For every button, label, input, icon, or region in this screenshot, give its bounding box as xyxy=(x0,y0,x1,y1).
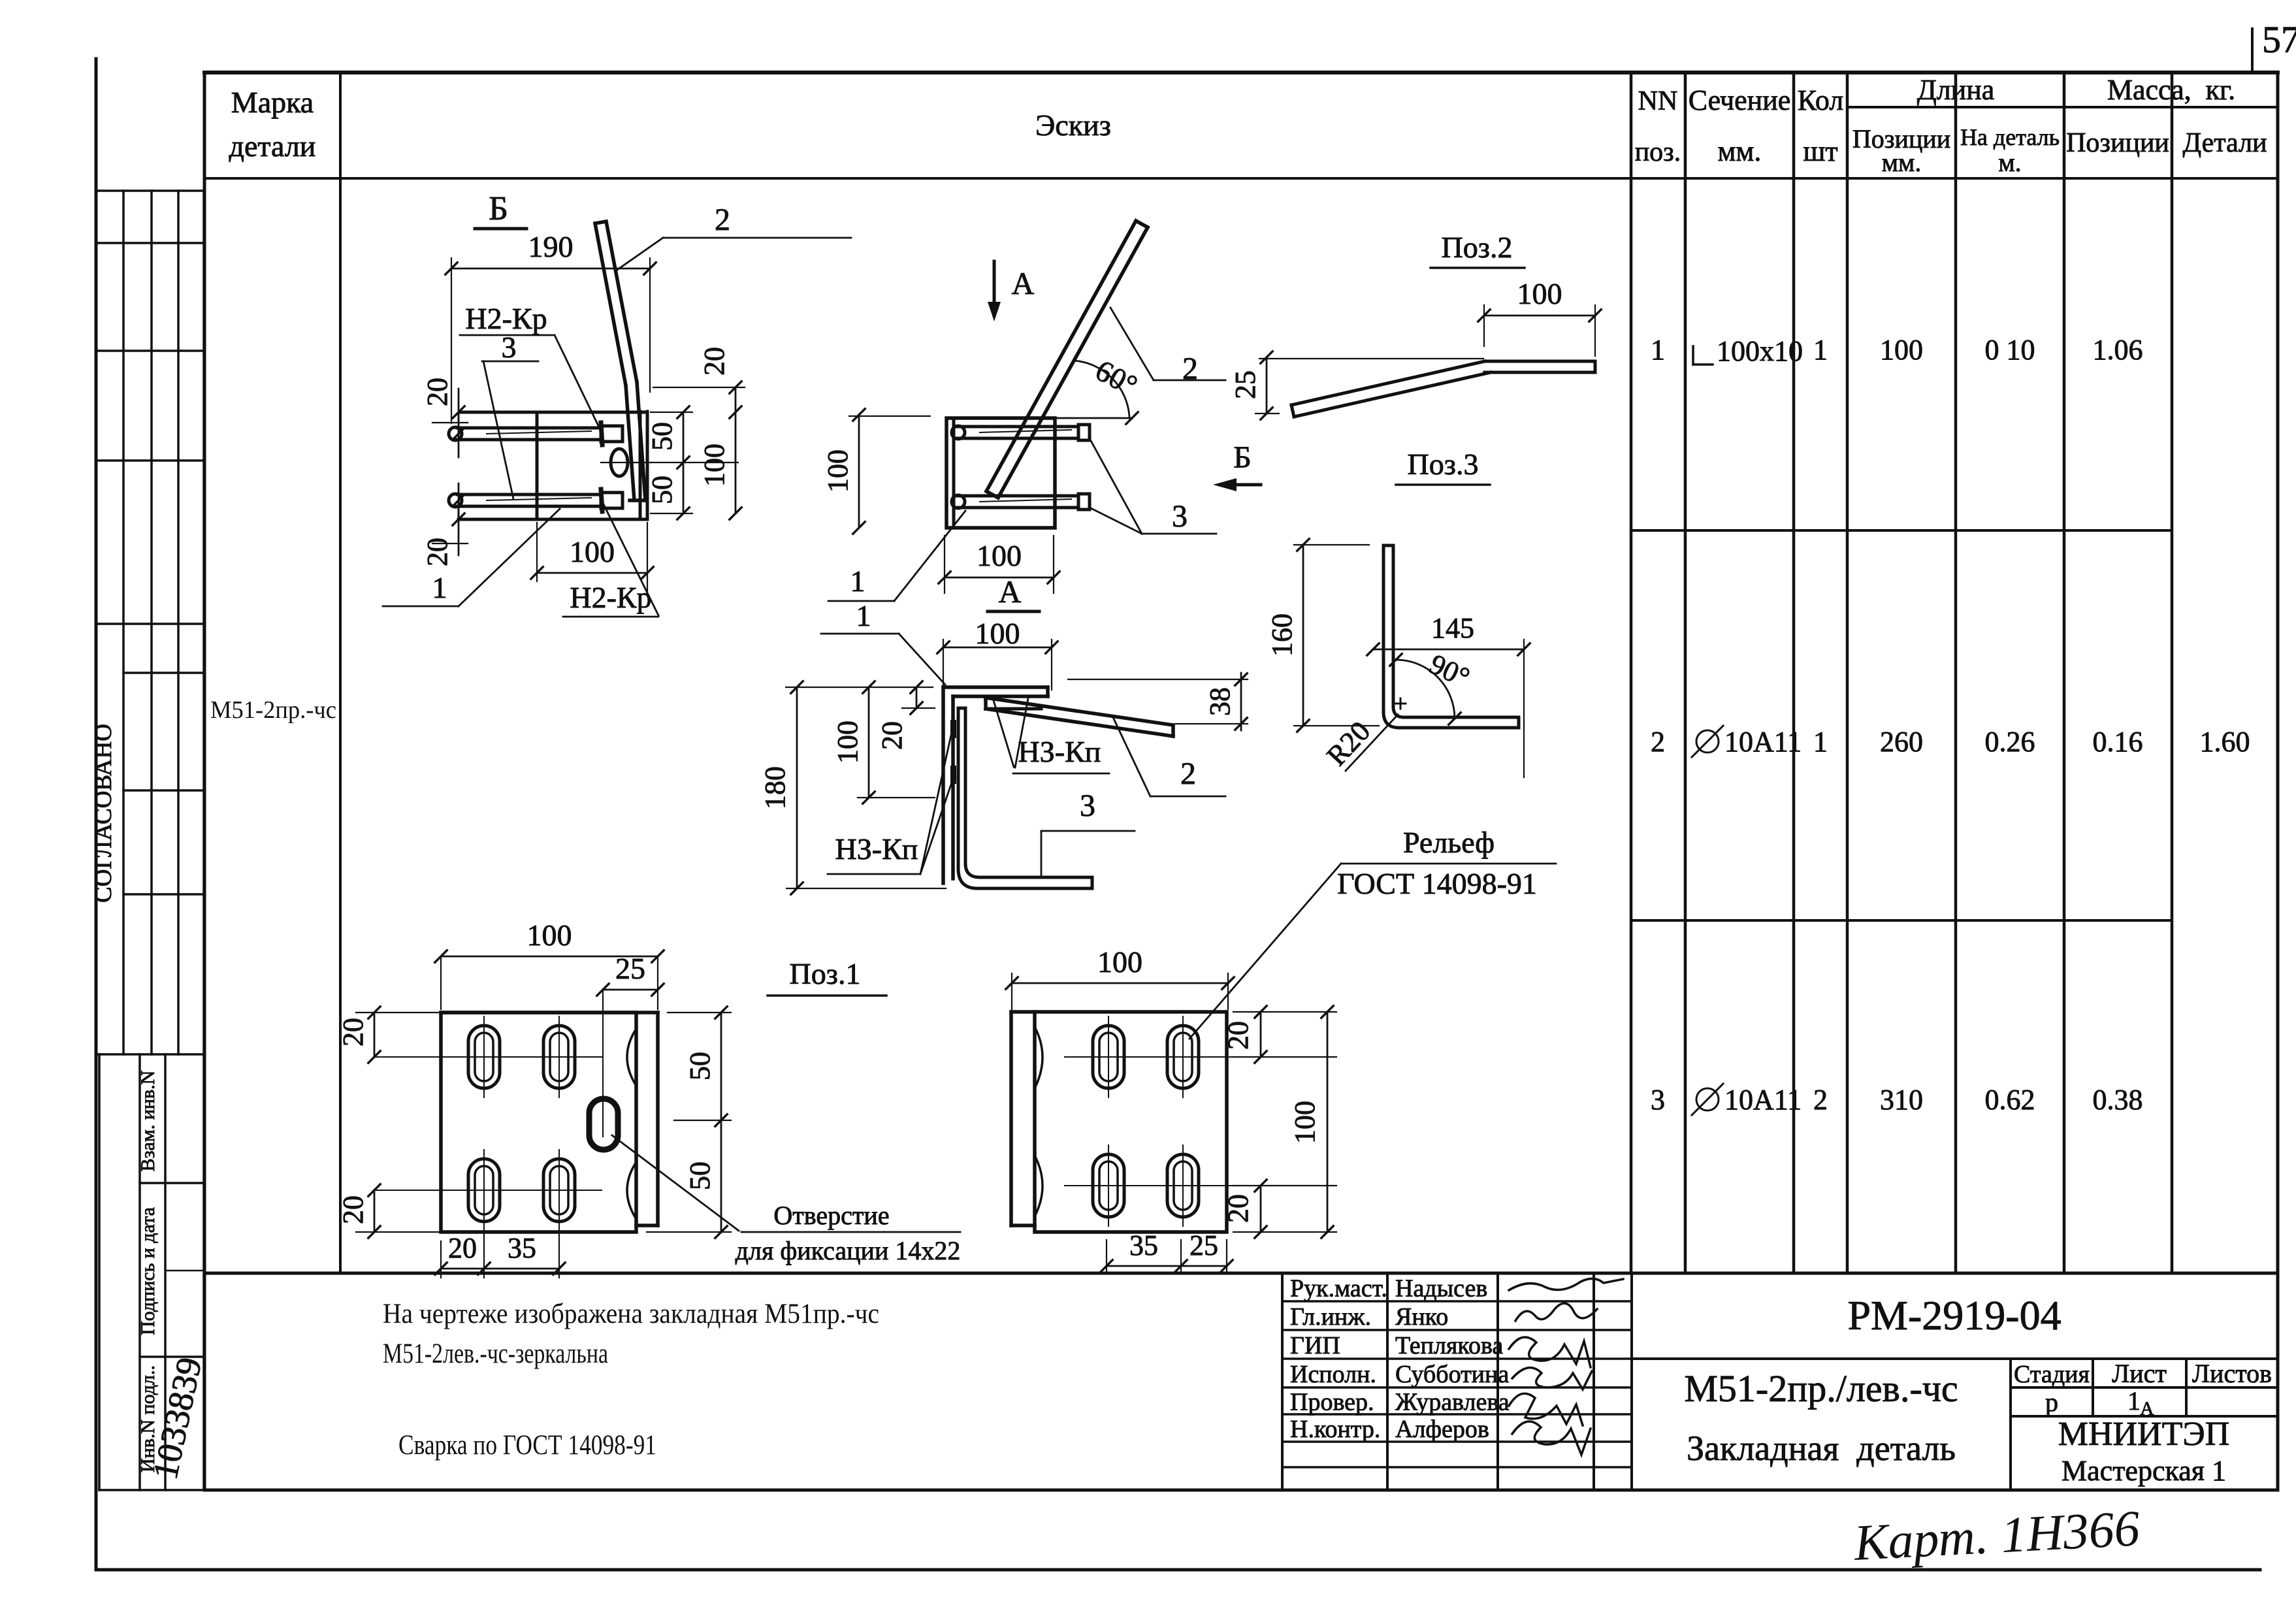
svg-text:А: А xyxy=(999,575,1022,609)
svg-text:Взам. инв.N: Взам. инв.N xyxy=(137,1071,159,1172)
svg-text:Поз.3: Поз.3 xyxy=(1408,447,1479,481)
svg-text:Кол: Кол xyxy=(1798,84,1844,116)
svg-text:3: 3 xyxy=(502,331,517,364)
svg-text:Марка: Марка xyxy=(231,86,314,119)
svg-text:1.06: 1.06 xyxy=(2093,334,2143,366)
svg-text:20: 20 xyxy=(421,378,453,406)
svg-text:57: 57 xyxy=(2262,18,2296,61)
svg-text:100: 100 xyxy=(698,444,730,487)
svg-text:100: 100 xyxy=(975,617,1020,650)
svg-text:1: 1 xyxy=(856,599,871,632)
svg-text:Надысев: Надысев xyxy=(1395,1275,1487,1303)
svg-text:20: 20 xyxy=(1222,1021,1254,1050)
svg-text:Лист: Лист xyxy=(2112,1359,2167,1388)
svg-text:Гл.инж.: Гл.инж. xyxy=(1290,1303,1371,1331)
svg-text:1: 1 xyxy=(432,571,447,604)
svg-text:1: 1 xyxy=(1813,726,1828,758)
svg-text:20: 20 xyxy=(698,347,730,376)
svg-text:Мастерская 1: Мастерская 1 xyxy=(2062,1455,2226,1487)
svg-text:25: 25 xyxy=(615,952,645,985)
svg-text:50: 50 xyxy=(646,422,678,451)
svg-text:100: 100 xyxy=(822,449,854,493)
svg-text:шт: шт xyxy=(1803,135,1837,167)
svg-text:НЗ-Кп: НЗ-Кп xyxy=(835,832,918,866)
svg-text:20: 20 xyxy=(337,1018,369,1046)
svg-text:NN: NN xyxy=(1638,86,1678,116)
svg-text:100: 100 xyxy=(1517,277,1562,310)
svg-text:3: 3 xyxy=(1172,499,1188,534)
svg-text:3: 3 xyxy=(1080,788,1095,823)
svg-text:0.26: 0.26 xyxy=(1985,726,2035,758)
svg-text:детали: детали xyxy=(229,129,316,163)
svg-text:180: 180 xyxy=(759,766,791,809)
svg-text:для фиксации 14х22: для фиксации 14х22 xyxy=(736,1236,961,1265)
svg-text:1: 1 xyxy=(1651,334,1665,366)
svg-text:35: 35 xyxy=(508,1232,536,1264)
svg-text:Исполн.: Исполн. xyxy=(1290,1361,1376,1388)
svg-text:Подпись и дата: Подпись и дата xyxy=(137,1207,159,1335)
svg-text:310: 310 xyxy=(1880,1084,1923,1116)
svg-text:НЗ-Кп: НЗ-Кп xyxy=(1018,735,1101,768)
svg-text:Эскиз: Эскиз xyxy=(1035,108,1111,142)
svg-text:35: 35 xyxy=(1129,1229,1158,1261)
svg-text:Рук.маст.: Рук.маст. xyxy=(1290,1275,1387,1303)
svg-text:На деталь: На деталь xyxy=(1960,124,2060,150)
svg-text:мм.: мм. xyxy=(1718,135,1762,167)
svg-text:38: 38 xyxy=(1204,687,1236,716)
svg-text:1: 1 xyxy=(1813,334,1828,366)
svg-text:Детали: Детали xyxy=(2182,128,2267,158)
svg-text:Сварка по ГОСТ 14098-91: Сварка по ГОСТ 14098-91 xyxy=(398,1430,656,1461)
svg-text:0.62: 0.62 xyxy=(1985,1084,2035,1116)
svg-text:Сечение: Сечение xyxy=(1689,84,1791,116)
svg-text:2: 2 xyxy=(1180,756,1196,791)
svg-text:25: 25 xyxy=(1189,1229,1218,1261)
svg-text:2: 2 xyxy=(1813,1084,1828,1116)
svg-text:ГИП: ГИП xyxy=(1290,1332,1340,1359)
svg-text:100: 100 xyxy=(527,918,572,952)
svg-text:10А11: 10А11 xyxy=(1724,726,1802,758)
svg-text:М51-2пр./лев.-чс: М51-2пр./лев.-чс xyxy=(1684,1367,1958,1410)
svg-text:100: 100 xyxy=(1880,334,1923,366)
svg-text:50: 50 xyxy=(646,476,678,504)
svg-text:50: 50 xyxy=(684,1052,716,1080)
svg-text:М51-2лев.-чс-зеркальна: М51-2лев.-чс-зеркальна xyxy=(383,1338,608,1369)
svg-text:Стадия: Стадия xyxy=(2014,1361,2090,1388)
svg-text:ГОСТ 14098-91: ГОСТ 14098-91 xyxy=(1337,867,1537,900)
svg-text:20: 20 xyxy=(421,538,453,566)
svg-text:Длина: Длина xyxy=(1917,74,1995,106)
svg-text:190: 190 xyxy=(528,230,574,263)
svg-text:145: 145 xyxy=(1431,612,1474,644)
svg-text:РМ-2919-04: РМ-2919-04 xyxy=(1847,1292,2061,1338)
svg-text:Теплякова: Теплякова xyxy=(1395,1332,1503,1359)
svg-text:Н.контр.: Н.контр. xyxy=(1290,1416,1380,1443)
svg-text:100: 100 xyxy=(1289,1101,1321,1144)
svg-text:Поз.1: Поз.1 xyxy=(790,957,861,990)
svg-text:Н2-Кр: Н2-Кр xyxy=(570,581,651,614)
svg-text:р: р xyxy=(2045,1387,2058,1417)
svg-text:мм.: мм. xyxy=(1882,148,1922,177)
svg-text:Алферов: Алферов xyxy=(1395,1416,1489,1443)
svg-text:Поз.2: Поз.2 xyxy=(1442,231,1513,264)
svg-text:м.: м. xyxy=(1998,148,2021,177)
svg-text:На чертеже изображена закладна: На чертеже изображена закладная М51пр.-ч… xyxy=(383,1299,879,1329)
svg-text:Субботина: Субботина xyxy=(1395,1361,1509,1388)
svg-text:1.60: 1.60 xyxy=(2200,726,2250,758)
svg-text:поз.: поз. xyxy=(1635,137,1681,167)
svg-text:Закладная деталь: Закладная деталь xyxy=(1687,1429,1956,1468)
svg-text:0.16: 0.16 xyxy=(2093,726,2143,758)
svg-text:МНИИТЭП: МНИИТЭП xyxy=(2058,1416,2230,1453)
svg-text:160: 160 xyxy=(1266,613,1298,657)
svg-text:Янко: Янко xyxy=(1395,1303,1448,1331)
svg-text:Журавлева: Журавлева xyxy=(1395,1389,1510,1416)
svg-text:Б: Б xyxy=(1233,440,1252,475)
svg-text:Масса, кг.: Масса, кг. xyxy=(2107,74,2235,106)
svg-text:М51-2пр.-чс: М51-2пр.-чс xyxy=(210,696,336,724)
svg-text:Отверстие: Отверстие xyxy=(773,1201,889,1230)
svg-text:1: 1 xyxy=(2127,1386,2141,1416)
svg-text:Провер.: Провер. xyxy=(1290,1389,1374,1416)
svg-text:100x10: 100x10 xyxy=(1717,335,1803,367)
svg-text:0 10: 0 10 xyxy=(1985,334,2035,366)
svg-text:25: 25 xyxy=(1229,370,1261,399)
svg-text:Позиции: Позиции xyxy=(2066,128,2169,158)
svg-text:Рельеф: Рельеф xyxy=(1403,826,1495,859)
svg-text:260: 260 xyxy=(1880,726,1923,758)
svg-text:2: 2 xyxy=(715,203,730,237)
svg-text:2: 2 xyxy=(1651,726,1665,758)
svg-text:20: 20 xyxy=(1222,1194,1254,1223)
svg-text:20: 20 xyxy=(448,1232,477,1264)
svg-text:100: 100 xyxy=(832,721,864,764)
svg-text:50: 50 xyxy=(684,1161,716,1190)
svg-text:20: 20 xyxy=(876,721,908,750)
svg-text:100: 100 xyxy=(1097,945,1142,979)
svg-text:0.38: 0.38 xyxy=(2093,1084,2143,1116)
svg-text:3: 3 xyxy=(1651,1084,1665,1116)
svg-text:1: 1 xyxy=(850,564,865,598)
svg-text:Листов: Листов xyxy=(2192,1359,2272,1388)
svg-text:20: 20 xyxy=(337,1195,369,1224)
svg-text:10А11: 10А11 xyxy=(1724,1084,1802,1116)
svg-text:СОГЛАСОВАНО: СОГЛАСОВАНО xyxy=(90,724,117,903)
svg-text:А: А xyxy=(1012,267,1035,301)
svg-text:100: 100 xyxy=(570,535,615,568)
svg-text:100: 100 xyxy=(977,539,1022,572)
svg-text:Б: Б xyxy=(489,190,508,227)
